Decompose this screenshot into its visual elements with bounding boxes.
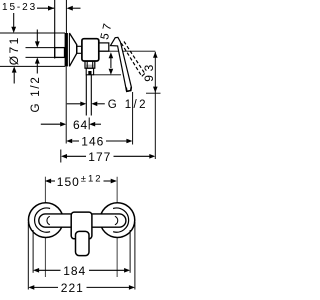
dim 221 row: [28, 285, 34, 290]
svg-text:G 1/2: G 1/2: [30, 75, 42, 112]
dim O71 bottom arrow: [12, 66, 17, 72]
escutcheon circle left: [28, 203, 63, 238]
neck: [77, 46, 82, 53]
dim 146 row: [66, 139, 72, 144]
outlet end extension line: [94, 74, 121, 76]
dim 93 line: [154, 52, 156, 159]
escutcheon face upper extension line: [65, 0, 67, 33]
dim G1/2 left down arrow: [36, 30, 38, 43]
wall line: [54, 0, 56, 59]
escutcheon circle right: [100, 203, 135, 238]
dim 93 bottom tick: [146, 92, 161, 94]
svg-text:Ø71: Ø71: [7, 35, 21, 65]
svg-text:184: 184: [63, 264, 86, 278]
svg-text:G 1/2: G 1/2: [108, 99, 148, 111]
cartridge housing front: [71, 212, 92, 239]
escutcheon bottom extension line: [0, 65, 65, 67]
pill inner end arc left: [47, 216, 50, 225]
dashed lever lines: [121, 43, 142, 76]
dim G1/2 left up arrow: [35, 57, 40, 63]
svg-text:221: 221: [61, 281, 84, 295]
lever end extension line: [132, 92, 134, 145]
dim 15-23 right line+arrow: [67, 6, 73, 11]
escutcheon face inner line: [68, 33, 70, 66]
svg-text:177: 177: [88, 150, 111, 164]
outlet collar: [85, 61, 95, 68]
solid lever: [111, 37, 132, 91]
center axis line left: [44, 177, 46, 277]
svg-text:93: 93: [142, 61, 156, 82]
svg-text:64: 64: [73, 118, 88, 132]
hose nipple lines: [85, 75, 87, 116]
G1/2 inlet stub: [55, 48, 65, 58]
dim 150+-12 row: [45, 179, 51, 184]
escutcheon top extension line: [0, 32, 65, 34]
184 extension lines: [32, 230, 34, 273]
dim 15-23 left line+arrow: [37, 7, 54, 9]
dim G1/2 right arrows: [67, 103, 81, 105]
svg-text:146: 146: [81, 134, 104, 148]
dim 57 connector: [110, 58, 112, 68]
dim 177 row: [61, 154, 67, 159]
dim 93 down arrow: [153, 87, 158, 93]
svg-text:15-23: 15-23: [2, 2, 37, 13]
escutcheon face lower extension line: [65, 67, 67, 144]
dim 57 down arrow: [109, 69, 114, 75]
svg-text:150: 150: [57, 175, 80, 189]
union arc left: [35, 208, 51, 232]
escutcheon face bar: [65, 33, 68, 66]
union arc right: [113, 208, 129, 232]
221 extension lines: [27, 222, 29, 290]
body pill bar: [39, 214, 126, 227]
dim 64 row: [41, 123, 61, 125]
177 left boundary line: [60, 150, 62, 163]
stub top extension line: [26, 47, 55, 49]
valve body: [82, 39, 99, 61]
dim 93 up arrow: [153, 52, 158, 58]
dim 57 up arrow: [109, 52, 114, 58]
escutcheon cone: [69, 33, 76, 66]
pill inner end arc right: [115, 216, 118, 225]
cartridge hub: [99, 43, 109, 51]
dim O71 top arrow: [13, 13, 15, 28]
outlet mid: [86, 68, 93, 75]
dim 184 row: [33, 268, 39, 273]
hose axis extension line: [88, 118, 90, 130]
stub bottom extension line: [26, 56, 55, 58]
svg-text:±12: ±12: [81, 174, 103, 185]
center axis line right: [116, 177, 118, 277]
axis extension line right: [99, 50, 156, 52]
lever front: [76, 231, 90, 255]
